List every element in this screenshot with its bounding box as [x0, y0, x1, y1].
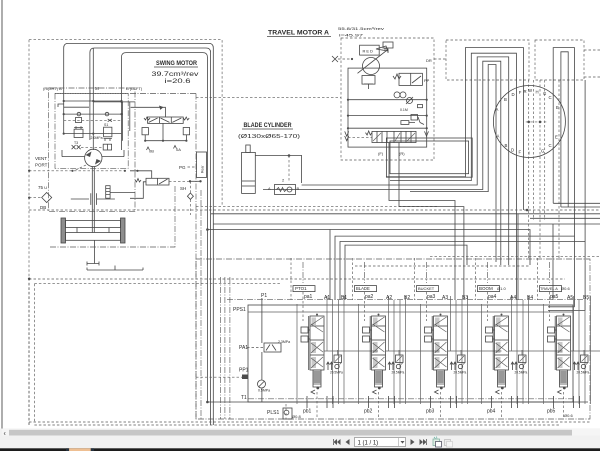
svg-text:B: B: [505, 143, 508, 148]
svg-text:A: A: [268, 186, 271, 191]
svg-text:TRAVEL A: TRAVEL A: [540, 287, 558, 291]
svg-text:Ø0.6: Ø0.6: [564, 413, 573, 418]
svg-text:PLS1: PLS1: [267, 410, 279, 416]
svg-text:A: A: [496, 107, 499, 112]
svg-text:A4: A4: [510, 295, 516, 301]
svg-text:pb4: pb4: [487, 409, 496, 415]
svg-text:pb1: pb1: [303, 409, 312, 415]
svg-text:A2: A2: [386, 295, 392, 301]
svg-text:M: M: [95, 86, 99, 91]
svg-text:PA1: PA1: [239, 345, 248, 351]
svg-text:0.1M: 0.1M: [400, 108, 408, 112]
svg-text:SH: SH: [180, 186, 186, 191]
svg-text:Ø1.0: Ø1.0: [497, 286, 506, 291]
svg-text:A: A: [497, 134, 500, 139]
svg-text:F: F: [519, 150, 522, 155]
svg-text:F: F: [519, 90, 522, 95]
svg-text:i=20.6: i=20.6: [165, 79, 192, 85]
svg-text:PP: PP: [424, 78, 430, 83]
svg-text:75 u: 75 u: [38, 185, 47, 190]
svg-text:B (LEFT): B (LEFT): [126, 86, 143, 91]
svg-text:Ø0.8: Ø0.8: [292, 414, 301, 419]
svg-text:pb3: pb3: [426, 409, 435, 415]
svg-text:(RIGHT) A: (RIGHT) A: [43, 86, 62, 91]
svg-text:R: R: [524, 89, 527, 94]
svg-text:(R): (R): [399, 151, 405, 156]
svg-text:B3: B3: [462, 295, 468, 301]
svg-text:PTO1: PTO1: [295, 286, 307, 291]
svg-text:H: H: [536, 90, 539, 95]
svg-text:i=45.97: i=45.97: [339, 33, 364, 38]
svg-text:B: B: [297, 186, 300, 191]
svg-text:E: E: [556, 105, 559, 110]
svg-text:DB: DB: [40, 205, 46, 210]
svg-text:D: D: [512, 92, 515, 97]
svg-text:PORT: PORT: [35, 163, 48, 168]
svg-text:1 (1 / 1): 1 (1 / 1): [358, 440, 379, 446]
svg-text:BLADE CYLINDER: BLADE CYLINDER: [244, 123, 293, 129]
svg-text:T1: T1: [241, 395, 247, 401]
svg-text:0A: 0A: [176, 147, 181, 152]
svg-text:pb5: pb5: [547, 409, 556, 415]
svg-text:PPS1: PPS1: [233, 307, 246, 313]
svg-text:A1: A1: [324, 295, 330, 301]
svg-text:S1: S1: [104, 123, 108, 127]
svg-text:pb2: pb2: [364, 409, 373, 415]
svg-text:B4: B4: [527, 295, 533, 301]
svg-text:pa3: pa3: [427, 294, 436, 300]
svg-text:PP1: PP1: [239, 368, 249, 374]
svg-text:Ø0.6: Ø0.6: [561, 286, 570, 291]
svg-text:RED: RED: [363, 49, 374, 54]
svg-text:pa2: pa2: [365, 294, 374, 300]
svg-text:BUCKET: BUCKET: [418, 286, 435, 291]
svg-text:B: B: [504, 97, 507, 102]
svg-text:2.3MPa: 2.3MPa: [278, 340, 290, 344]
svg-text:0B: 0B: [149, 149, 154, 154]
svg-text:B2: B2: [404, 295, 410, 301]
svg-text:B5: B5: [583, 295, 589, 301]
svg-text:2.0MPa: 2.0MPa: [91, 136, 103, 140]
svg-text:BOOM: BOOM: [479, 286, 493, 291]
svg-text:SWING MOTOR: SWING MOTOR: [156, 60, 197, 67]
svg-text:55.8/31.5cm³/rev: 55.8/31.5cm³/rev: [338, 26, 384, 31]
svg-text:BLADE: BLADE: [356, 286, 370, 291]
svg-text:C: C: [549, 143, 552, 148]
svg-text:D: D: [511, 148, 514, 153]
svg-text:DR: DR: [426, 58, 432, 63]
svg-text:Rear: Rear: [201, 165, 205, 173]
svg-text:0.5MPa: 0.5MPa: [258, 389, 270, 393]
svg-text:A3: A3: [442, 295, 448, 301]
svg-text:(F): (F): [378, 151, 384, 156]
svg-text:pa4: pa4: [488, 294, 497, 300]
svg-text:B1: B1: [341, 295, 347, 301]
svg-text:PG: PG: [179, 165, 186, 170]
svg-text:I: I: [529, 151, 530, 156]
svg-text:TRAVEL MOTOR A: TRAVEL MOTOR A: [268, 31, 330, 37]
svg-text:39.7cm³/rev: 39.7cm³/rev: [152, 72, 199, 78]
svg-text:A5: A5: [567, 295, 573, 301]
svg-text:pa1: pa1: [304, 294, 313, 300]
svg-text:VENT: VENT: [35, 156, 47, 161]
svg-text:pa5: pa5: [550, 294, 559, 300]
svg-text:C: C: [549, 95, 552, 100]
svg-text:E: E: [555, 135, 558, 140]
svg-text:(Ø130xØ65-170): (Ø130xØ65-170): [238, 134, 301, 140]
svg-text:T3: T3: [74, 141, 78, 145]
